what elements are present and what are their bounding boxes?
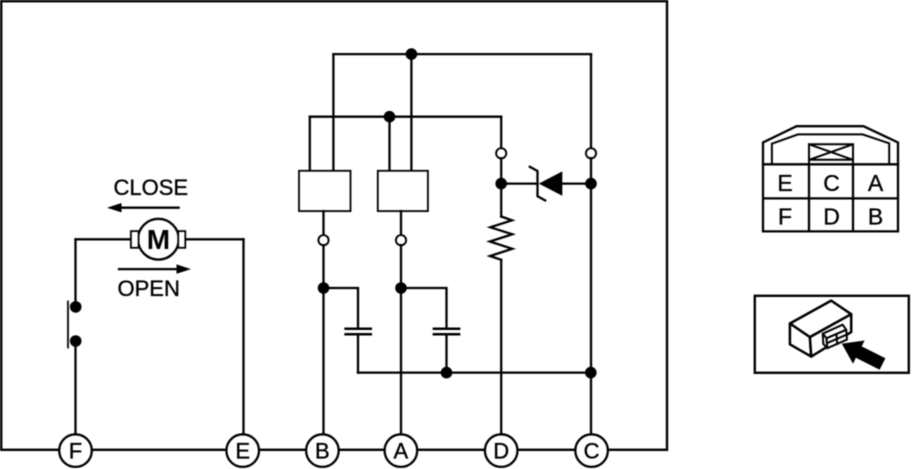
capacitor C2 top plate [434,327,459,330]
arrow CLOSE (left) shaft [120,207,179,209]
connector icon arrow [842,341,886,370]
connector icon frame [755,296,909,373]
wire relay2 pin1 [388,117,390,171]
connector icon module right face [810,314,851,356]
wire F to switch [74,239,76,307]
terminal C [575,434,608,467]
wire D branch upper [500,117,502,149]
svg-text:OPEN: OPEN [118,276,180,301]
wire C branch upper [590,54,592,148]
wire zener left lead [501,182,537,184]
connector pinout grid [763,164,898,231]
junction bottom bus C line [585,367,597,379]
wire motor to terminal E [242,239,244,434]
terminal D [485,434,518,467]
switch S1 contact dot lower [70,335,82,347]
junction top bus [406,48,418,60]
svg-text:CLOSE: CLOSE [114,175,189,200]
wire zener right lead [562,182,591,184]
wire A to capacitor 2 [401,288,447,328]
terminal F [59,434,92,467]
motor M circle [138,219,179,260]
wire resistor to terminal D [500,260,502,435]
svg-text:C: C [584,439,600,464]
connector icon plug top face [823,325,847,339]
wire motor left lead [76,238,132,240]
connector icon plug face grid [827,330,848,348]
switch S1 contact dot upper [70,301,82,313]
wire motor right lead [185,238,243,240]
wire A line [400,245,402,434]
wire C line [590,158,592,434]
junction bottom bus capacitor 2 [441,367,453,379]
contact circle relay2 [396,235,406,245]
wire relay1 pin2 [332,54,334,171]
svg-text:A: A [868,170,884,196]
connector pinout housing inner [772,134,889,164]
wire relay1 pin1 [309,117,311,171]
arrow OPEN head [177,264,192,273]
contact circle D branch [496,148,506,158]
svg-text:B: B [868,203,883,229]
motor M left brush [131,231,139,248]
svg-text:F: F [69,439,82,464]
terminal A [385,434,418,467]
relay box 2 [378,171,428,211]
junction A line [395,282,407,294]
schematic outer border [1,1,667,450]
svg-text:A: A [394,439,409,464]
arrow CLOSE head [107,203,122,212]
wire B to capacitor 1 [324,288,359,328]
wire D branch to resistor [500,158,502,216]
terminal B [306,434,339,467]
terminal E [226,434,259,467]
zener diode D1 triangle [539,171,563,195]
wire relay2 to contact [400,211,402,235]
junction zener anode [495,178,507,190]
wire second bus [310,116,501,118]
svg-text:E: E [235,439,250,464]
wire capacitor 2 to bottom bus [445,335,447,373]
wire relay1 to contact [322,211,324,235]
wire top bus [333,53,591,55]
switch S1 blade [67,302,69,348]
svg-text:D: D [823,203,840,229]
contact circle relay1 [318,235,328,245]
capacitor C1 bottom plate [346,333,371,336]
connector icon plug left face [823,334,828,349]
svg-text:M: M [147,224,170,255]
junction zener cathode side [585,178,597,190]
relay box 1 [299,171,351,211]
connector icon module front face [790,324,811,357]
svg-text:C: C [823,170,840,196]
connector icon module top face [790,301,851,338]
resistor R1 [490,217,513,260]
svg-text:B: B [315,439,330,464]
wire B line [322,245,324,434]
connector pinout latch box with X [809,144,853,164]
junction second bus [384,111,396,123]
svg-text:E: E [777,170,792,196]
connector pinout housing outer [763,126,898,164]
wire relay2 pin2 [410,54,412,171]
contact circle C branch [586,148,596,158]
capacitor C2 bottom plate [434,333,459,336]
motor M right brush [178,231,185,248]
arrow OPEN (right) shaft [119,268,177,270]
svg-text:F: F [778,203,792,229]
zener diode D1 cathode bar [530,167,545,201]
capacitor C1 top plate [346,327,371,330]
wire switch to terminal F [74,341,76,435]
svg-text:D: D [493,439,509,464]
junction B line [318,282,330,294]
wire bottom bus [358,371,591,373]
wire capacitor 1 to bottom bus [357,335,359,373]
